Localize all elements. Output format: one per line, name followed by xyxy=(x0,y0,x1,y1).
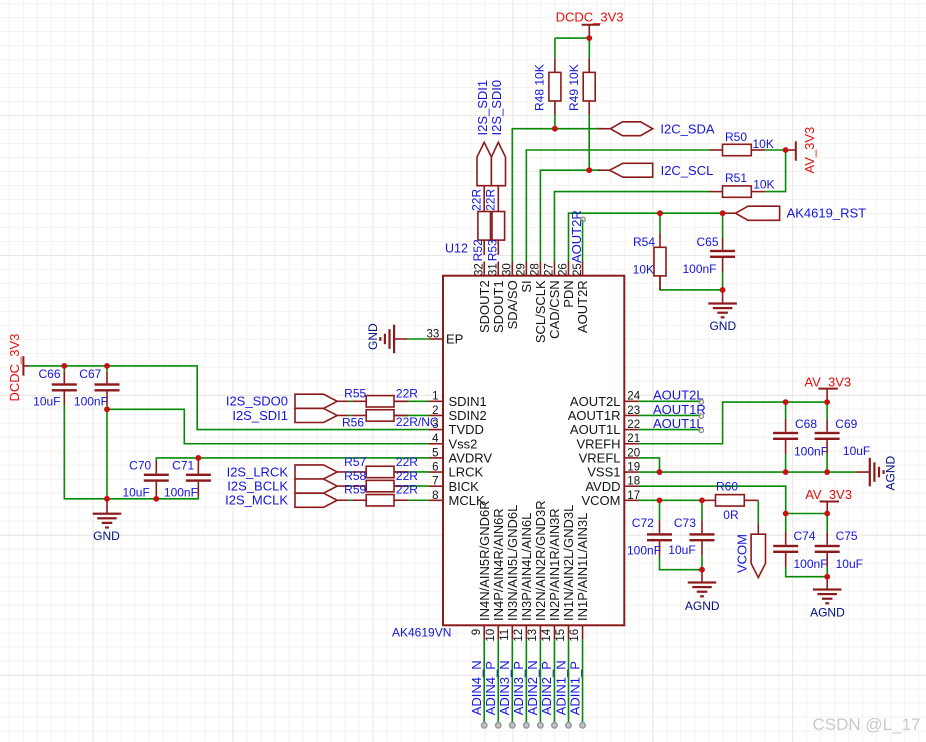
U12 pin 8 (MCLK) xyxy=(429,499,443,501)
wire C69 bottom stub xyxy=(826,454,828,472)
svg-text:22R: 22R xyxy=(396,386,418,400)
svg-text:22R: 22R xyxy=(396,482,418,496)
U12 pin 13 (IN2N/AIN2R/GND3R) xyxy=(539,625,541,639)
svg-text:GND: GND xyxy=(93,529,120,543)
svg-text:R58: R58 xyxy=(344,469,366,483)
svg-text:22R: 22R xyxy=(484,189,498,211)
wire C65 top to RST line xyxy=(722,213,724,238)
U12 pin 22 (AOUT1L) xyxy=(624,429,638,431)
U12 pin 32 (SDOUT2) xyxy=(483,262,485,276)
ground AGND (below C72/C73) xyxy=(701,570,703,583)
svg-text:5: 5 xyxy=(432,447,438,459)
svg-text:ADIN4_P: ADIN4_P xyxy=(483,661,498,715)
svg-text:27: 27 xyxy=(544,263,556,276)
svg-text:LRCK: LRCK xyxy=(449,465,484,480)
svg-text:SDIN1: SDIN1 xyxy=(449,394,487,409)
svg-text:22R: 22R xyxy=(469,189,483,211)
U12 pin 23 (AOUT1R) xyxy=(624,414,638,416)
svg-text:14: 14 xyxy=(541,628,553,641)
svg-text:21: 21 xyxy=(627,433,640,445)
svg-text:IN1P/AIN1L/AIN3L: IN1P/AIN1L/AIN3L xyxy=(575,513,590,621)
wire C65 bottom xyxy=(722,272,724,290)
svg-text:CSDN @L_17: CSDN @L_17 xyxy=(813,715,921,734)
U12 pin 31 (SDOUT1) xyxy=(497,262,499,276)
svg-text:33: 33 xyxy=(427,328,440,340)
wire R49 bottom to I2C_SCL line xyxy=(588,115,590,170)
ground GND (below R54/C65) xyxy=(722,290,724,304)
svg-text:I2S_SDO0: I2S_SDO0 xyxy=(226,394,288,409)
svg-text:AOUT2L: AOUT2L xyxy=(570,394,621,409)
U12 pin 1 (SDIN1) xyxy=(429,400,443,402)
svg-text:GND: GND xyxy=(709,319,736,333)
svg-text:15: 15 xyxy=(555,629,567,642)
svg-text:22: 22 xyxy=(627,419,640,431)
wire VREFH pin21 up to AV_3V3 rail xyxy=(638,402,827,444)
capacitor C69 10uF xyxy=(826,419,828,432)
junction GND rail/C70 xyxy=(153,496,159,502)
svg-text:R48 10K: R48 10K xyxy=(533,64,547,111)
wire C74/C75 bottom rail to AGND xyxy=(786,567,828,577)
svg-text:ADIN1_P: ADIN1_P xyxy=(567,661,582,715)
ground GND (below C66-C71 rail) xyxy=(106,499,108,514)
wire C67 bottom to Vss2 pin4 xyxy=(107,405,429,443)
svg-text:10uF: 10uF xyxy=(33,394,60,408)
wire AOUT1R pin23 xyxy=(638,414,700,416)
svg-text:AOUT1R: AOUT1R xyxy=(568,408,621,423)
wires bottom pins 9-16 to test points xyxy=(483,639,485,722)
svg-text:AGND: AGND xyxy=(810,606,845,620)
junction VREFL/VSS1 xyxy=(657,469,663,475)
U12 pin 14 (IN2P/AIN1R/AIN3R) xyxy=(553,625,555,639)
net tag I2S_SDO0 (to R55) xyxy=(295,394,337,408)
capacitor C67 100nF xyxy=(106,372,108,384)
no-connect marker AOUT1R end xyxy=(699,414,704,419)
test point markers bottom ADIN wires xyxy=(481,723,487,729)
svg-text:AOUT2L: AOUT2L xyxy=(653,388,704,403)
wire AOUT2L pin24 xyxy=(638,400,700,402)
svg-text:C69: C69 xyxy=(835,417,857,431)
wire SI net (pin29 up and right to R50) xyxy=(526,150,709,262)
wire EP pin33 to GND xyxy=(407,338,429,340)
junction C65 bottom/GND xyxy=(720,287,726,293)
svg-text:R51: R51 xyxy=(725,171,747,185)
svg-text:24: 24 xyxy=(627,391,640,403)
svg-text:6: 6 xyxy=(432,461,438,473)
capacitor C68 100nF xyxy=(785,419,787,432)
junction R49/I2C_SCL xyxy=(586,167,592,173)
resistor R59 22R xyxy=(337,499,349,501)
svg-text:I2C_SCL: I2C_SCL xyxy=(661,163,714,178)
junction C72/VCOM line xyxy=(657,497,663,503)
wire C70 bottom stub xyxy=(155,496,157,499)
U12 pin 3 (TVDD) xyxy=(429,429,443,431)
resistor R57 22R xyxy=(337,471,349,473)
wire DCDC_3V3 top rail to R48/R49 xyxy=(555,37,589,39)
svg-text:PDN: PDN xyxy=(561,280,576,307)
svg-text:26: 26 xyxy=(558,263,570,276)
svg-text:AK4619VN: AK4619VN xyxy=(392,626,451,640)
junction C68 bottom/VSS1 rail xyxy=(783,469,789,475)
svg-text:C71: C71 xyxy=(172,458,194,472)
wire PDN / AK4619_RST net (pin26 up and right to tag) xyxy=(569,213,725,262)
wire pin2 SDIN2 row R56 to IC xyxy=(349,414,353,416)
svg-text:AGND: AGND xyxy=(685,599,720,613)
svg-text:AV_3V3: AV_3V3 xyxy=(804,374,851,389)
U12 pin 20 (VREFL) xyxy=(624,457,638,459)
svg-text:28: 28 xyxy=(530,263,542,276)
svg-text:DCDC_3V3: DCDC_3V3 xyxy=(556,10,624,25)
capacitor C66 10uF xyxy=(63,372,65,384)
wire VCOM pin17 to R60 xyxy=(638,499,701,501)
capacitor C72 100nF xyxy=(659,520,661,533)
wire VSS1 pin19 to AGND xyxy=(638,471,856,473)
svg-text:TVDD: TVDD xyxy=(449,422,484,437)
svg-text:ADIN2_N: ADIN2_N xyxy=(525,660,540,715)
U12 pin 25 (AOUT2R) xyxy=(582,262,584,276)
svg-text:VCOM: VCOM xyxy=(734,534,749,573)
wire C68 bottom stub xyxy=(785,454,787,472)
svg-text:AVDD: AVDD xyxy=(585,479,620,494)
svg-text:32: 32 xyxy=(473,263,485,276)
svg-text:100nF: 100nF xyxy=(627,544,661,558)
wire R50 right to AV_3V3 junction xyxy=(765,149,788,151)
U12 pin 9 (IN4N/AIN5R/GND6R) xyxy=(483,625,485,639)
svg-text:10K: 10K xyxy=(633,263,654,277)
svg-text:10uF: 10uF xyxy=(843,444,870,458)
svg-text:22R: 22R xyxy=(396,469,418,483)
wire C68 top stub xyxy=(785,402,787,419)
junction C75 top/AV flag xyxy=(824,511,830,517)
resistor R56 22R/NC xyxy=(337,414,349,416)
svg-text:19: 19 xyxy=(627,461,640,473)
svg-text:ADIN2_P: ADIN2_P xyxy=(539,661,554,715)
svg-text:ADIN4_N: ADIN4_N xyxy=(469,660,484,715)
svg-text:ADIN3_P: ADIN3_P xyxy=(511,661,526,715)
no-connect marker pin25 AOUT2R xyxy=(581,217,586,222)
svg-text:VREFH: VREFH xyxy=(576,436,620,451)
svg-text:AOUT2R: AOUT2R xyxy=(575,280,590,333)
svg-text:100nF: 100nF xyxy=(794,444,828,458)
svg-text:CAD/CSN: CAD/CSN xyxy=(547,280,562,339)
wire CAD/CSN net (pin27 up and right to R51) xyxy=(554,192,709,262)
svg-text:C68: C68 xyxy=(795,417,817,431)
net tag I2S_BCLK (to R58) xyxy=(295,479,337,493)
junction C75 bottom/AGND xyxy=(824,574,830,580)
no-connect marker AOUT2L end xyxy=(699,400,704,405)
capacitor C74 100nF xyxy=(785,532,787,545)
resistor R55 22R xyxy=(337,400,349,402)
U12 pin 12 (IN3P/AIN4L/AIN6L) xyxy=(525,625,527,639)
svg-text:1: 1 xyxy=(432,391,438,403)
U12 pin 26 (PDN) xyxy=(568,262,570,276)
U12 pin 4 (Vss2) xyxy=(429,443,443,445)
power flag DCDC_3V3 (top) xyxy=(582,24,600,26)
svg-text:10uF: 10uF xyxy=(122,485,149,499)
junction C67/Vss2 branch xyxy=(104,406,110,412)
capacitor C65 100nF xyxy=(722,238,724,250)
svg-text:VCOM: VCOM xyxy=(582,493,621,508)
svg-text:4: 4 xyxy=(432,433,439,445)
svg-text:22R/NC: 22R/NC xyxy=(396,415,439,429)
svg-text:10: 10 xyxy=(485,629,497,642)
U12 pin 11 (IN3N/AIN5L/GND6L) xyxy=(511,625,513,639)
svg-text:R49 10K: R49 10K xyxy=(567,64,581,111)
svg-text:C70: C70 xyxy=(129,458,151,472)
svg-text:R50: R50 xyxy=(725,130,747,144)
wire R48 bottom to I2C_SDA line xyxy=(554,115,556,129)
svg-text:12: 12 xyxy=(513,629,525,642)
svg-text:I2S_LRCK: I2S_LRCK xyxy=(227,464,289,479)
U12 pin 10 (IN4P/AIN4R/AIN6R) xyxy=(497,625,499,639)
wire AOUT1L pin22 xyxy=(638,429,700,431)
wire AVDRV pin5 rail from C70/C71 tops xyxy=(156,458,428,461)
svg-text:SCL/SCLK: SCL/SCLK xyxy=(533,280,548,343)
wire pin8 MCLK row R59 to IC xyxy=(349,499,353,501)
svg-text:16: 16 xyxy=(569,629,581,642)
wire VREFL pin20 joins VSS1 xyxy=(638,458,659,472)
resistor R50 10K xyxy=(710,149,723,151)
U12 pin 18 (AVDD) xyxy=(624,485,638,487)
power flag AV_3V3 (right of R50) xyxy=(788,149,796,151)
svg-text:AOUT1L: AOUT1L xyxy=(653,416,704,431)
svg-text:AV_3V3: AV_3V3 xyxy=(805,487,852,502)
svg-text:11: 11 xyxy=(499,629,511,641)
svg-text:R52: R52 xyxy=(471,239,485,261)
svg-text:30: 30 xyxy=(502,263,514,276)
junction C73 bottom/AGND xyxy=(699,567,705,573)
wire I2C_SDA net (pin30 SDA/SO up and right to tag) xyxy=(512,129,601,262)
wire C73 top stub xyxy=(701,500,703,520)
net tag I2C_SDA (bidirectional hexagon) xyxy=(598,128,611,130)
svg-text:9: 9 xyxy=(471,629,483,635)
U12 pin 2 (SDIN2) xyxy=(429,414,443,416)
svg-text:C72: C72 xyxy=(632,516,654,530)
svg-text:I2S_SDI1: I2S_SDI1 xyxy=(475,80,490,136)
svg-text:ADIN3_N: ADIN3_N xyxy=(497,660,512,715)
svg-text:IN3P/AIN4L/AIN6L: IN3P/AIN4L/AIN6L xyxy=(519,513,534,621)
svg-text:C75: C75 xyxy=(836,529,858,543)
wire pin7 BICK row R58 to IC xyxy=(349,485,353,487)
U12 pin 30 (SDA/SO) xyxy=(511,262,513,276)
wire R54 bottom to GND rail to C65 bottom xyxy=(660,276,723,290)
resistor R51 10K xyxy=(710,191,723,193)
junction C65/RST line xyxy=(720,210,726,216)
svg-text:VREFL: VREFL xyxy=(579,451,621,466)
svg-text:100nF: 100nF xyxy=(794,557,828,571)
svg-text:SI: SI xyxy=(519,280,534,292)
junction C67 top xyxy=(104,363,110,369)
resistor R60 0R xyxy=(702,499,716,501)
svg-text:R53: R53 xyxy=(485,239,499,261)
U12 pin 21 (VREFH) xyxy=(624,443,638,445)
resistor R58 22R xyxy=(337,485,349,487)
junction C69 bottom/VSS1 rail xyxy=(824,469,830,475)
svg-text:AOUT1L: AOUT1L xyxy=(570,422,621,437)
svg-text:AK4619_RST: AK4619_RST xyxy=(787,206,867,221)
svg-text:23: 23 xyxy=(627,405,640,417)
U12 pin 29 (SI) xyxy=(525,262,527,276)
resistor R48 10K xyxy=(554,58,556,72)
svg-text:18: 18 xyxy=(627,476,640,488)
op-amp U12 AK4619VN codec IC body xyxy=(443,276,624,626)
svg-text:BICK: BICK xyxy=(449,479,480,494)
svg-text:AVDRV: AVDRV xyxy=(449,451,493,466)
svg-text:R59: R59 xyxy=(344,482,366,496)
wire R51 right up to AV_3V3 junction xyxy=(765,150,785,192)
wire C74 top stub xyxy=(785,514,787,533)
svg-text:I2S_MCLK: I2S_MCLK xyxy=(225,493,288,508)
wire R54 top to RST line xyxy=(659,213,661,233)
svg-text:0R: 0R xyxy=(723,508,739,522)
svg-text:10K: 10K xyxy=(753,178,774,192)
junction C69 top/AV flag xyxy=(824,399,830,405)
svg-text:SDIN2: SDIN2 xyxy=(449,408,487,423)
svg-text:DCDC_3V3: DCDC_3V3 xyxy=(7,334,22,402)
svg-text:SDOUT2: SDOUT2 xyxy=(477,280,492,333)
U12 pin 24 (AOUT2L) xyxy=(624,400,638,402)
ground GND (at EP pin) xyxy=(393,325,395,354)
U12 pin 28 (SCL/SCLK) xyxy=(539,262,541,276)
wire AOUT2R stub (pin25 up, unconnected) xyxy=(582,220,584,263)
capacitor C71 100nF xyxy=(197,461,199,474)
junction GND rail/C67 xyxy=(104,496,110,502)
svg-text:R56: R56 xyxy=(342,415,364,429)
svg-text:13: 13 xyxy=(527,629,539,642)
junction C73/VCOM line xyxy=(699,497,705,503)
net tag I2S_SDI0 (up, to R53) xyxy=(491,142,505,185)
net tag AK4619_RST (input wedge) xyxy=(725,212,736,214)
wire C72/C73 bottom rail to AGND xyxy=(660,555,703,569)
wire pin1 SDIN1 row R55 to IC xyxy=(349,400,353,402)
svg-text:SDA/SO: SDA/SO xyxy=(505,280,520,329)
svg-text:AGND: AGND xyxy=(883,455,897,490)
svg-text:10uF: 10uF xyxy=(668,543,695,557)
wire C69 top stub xyxy=(826,402,828,419)
svg-text:IN4P/AIN4R/AIN6R: IN4P/AIN4R/AIN6R xyxy=(491,508,506,621)
wire C75 top stub xyxy=(826,514,828,533)
svg-text:ADIN1_N: ADIN1_N xyxy=(553,660,568,715)
wire C72 top stub xyxy=(659,500,661,520)
svg-text:AV_3V3: AV_3V3 xyxy=(802,127,817,174)
svg-text:10K: 10K xyxy=(753,137,774,151)
svg-text:IN2N/AIN2R/GND3R: IN2N/AIN2R/GND3R xyxy=(533,500,548,621)
svg-text:U12: U12 xyxy=(445,242,468,256)
svg-text:IN4N/AIN5R/GND6R: IN4N/AIN5R/GND6R xyxy=(477,500,492,621)
svg-text:SDOUT1: SDOUT1 xyxy=(491,280,506,333)
svg-text:R54: R54 xyxy=(633,235,655,249)
capacitor C75 10uF xyxy=(826,532,828,545)
junction R54/RST line xyxy=(657,210,663,216)
U12 pin 27 (CAD/CSN) xyxy=(553,262,555,276)
wire C71 top stub xyxy=(197,458,199,461)
svg-text:100nF: 100nF xyxy=(164,485,198,499)
U12 pin 16 (IN1P/AIN1L/AIN3L) xyxy=(582,625,584,639)
junction C66 top xyxy=(61,363,67,369)
svg-text:R57: R57 xyxy=(344,455,366,469)
wire C67 top stub xyxy=(106,366,108,372)
svg-text:IN3N/AIN5L/GND6L: IN3N/AIN5L/GND6L xyxy=(505,505,520,621)
svg-text:8: 8 xyxy=(432,490,438,502)
wire C66 top stub xyxy=(63,366,65,372)
U12 pin 19 (VSS1) xyxy=(624,471,638,473)
net tag I2C_SCL (input wedge) xyxy=(598,169,610,171)
svg-text:EP: EP xyxy=(446,332,463,347)
U12 pin 7 (BICK) xyxy=(429,485,443,487)
wire DCDC_3V3 left rail to TVDD pin3 xyxy=(29,366,429,430)
svg-text:VSS1: VSS1 xyxy=(587,465,620,480)
svg-text:I2S_SDI0: I2S_SDI0 xyxy=(489,80,504,136)
junction AVDD/C74 xyxy=(783,511,789,517)
junction R50/AV_3V3 xyxy=(783,147,789,153)
U12 pin 15 (IN1N/AIN2L/GND3L) xyxy=(568,625,570,639)
net tag I2S_LRCK (to R57) xyxy=(295,465,337,479)
svg-text:10uF: 10uF xyxy=(836,557,863,571)
svg-text:100nF: 100nF xyxy=(74,394,108,408)
wire pin6 LRCK row R57 to IC xyxy=(349,471,353,473)
capacitor C73 10uF xyxy=(701,520,703,533)
U12 pin 6 (LRCK) xyxy=(429,471,443,473)
svg-text:I2C_SDA: I2C_SDA xyxy=(660,122,715,137)
net tag I2S_SDI1 (up, to R52) xyxy=(477,142,491,185)
svg-text:IN1N/AIN2L/GND3L: IN1N/AIN2L/GND3L xyxy=(561,505,576,621)
svg-text:GND: GND xyxy=(366,323,380,350)
svg-text:R60: R60 xyxy=(716,480,738,494)
svg-text:22R: 22R xyxy=(396,455,418,469)
svg-text:29: 29 xyxy=(516,263,528,276)
wire R60 right to VCOM tag xyxy=(757,500,759,524)
svg-text:100nF: 100nF xyxy=(682,262,716,276)
svg-text:17: 17 xyxy=(627,490,640,502)
svg-text:C65: C65 xyxy=(696,235,718,249)
svg-text:31: 31 xyxy=(487,263,499,276)
svg-text:IN2P/AIN1R/AIN3R: IN2P/AIN1R/AIN3R xyxy=(547,508,562,621)
svg-text:R55: R55 xyxy=(344,387,366,401)
svg-text:AOUT1R: AOUT1R xyxy=(653,402,706,417)
svg-text:C67: C67 xyxy=(79,367,101,381)
net tag I2S_SDI1 (to R56) xyxy=(295,408,337,422)
wire C67 bottom leg to GND rail xyxy=(106,409,108,499)
junction C68 top/AV rail xyxy=(783,399,789,405)
resistor R49 10K xyxy=(588,58,590,72)
junction DCDC_3V3 top xyxy=(586,35,592,41)
no-connect marker AOUT1L end xyxy=(699,428,704,433)
capacitor C70 10uF xyxy=(155,461,157,474)
svg-text:C74: C74 xyxy=(794,529,816,543)
wire GND bottom rail C66-C71 xyxy=(64,405,198,498)
wire I2C_SCL net (pin28 up and right to tag) xyxy=(540,170,601,262)
resistor R53 22R xyxy=(497,186,499,212)
svg-text:C66: C66 xyxy=(38,367,60,381)
junction R48/I2C_SDA xyxy=(552,126,558,132)
ground AGND (right of VSS1 rail) xyxy=(856,471,870,473)
svg-text:20: 20 xyxy=(627,447,640,459)
net tag VCOM (down) xyxy=(757,524,759,534)
svg-text:I2S_BCLK: I2S_BCLK xyxy=(227,479,288,494)
resistor R54 10K xyxy=(659,233,661,247)
junction C71 top/AVDRV xyxy=(195,455,201,461)
U12 pin 17 (VCOM) xyxy=(624,499,638,501)
ground AGND (below C74/C75) xyxy=(826,577,828,590)
svg-text:I2S_SDI1: I2S_SDI1 xyxy=(232,408,288,423)
net tag I2S_MCLK (to R59) xyxy=(295,493,337,507)
svg-text:C73: C73 xyxy=(674,516,696,530)
svg-text:25: 25 xyxy=(572,263,584,276)
U12 pin 5 (AVDRV) xyxy=(429,457,443,459)
wire AVDD pin18 to AV_3V3 rail xyxy=(638,486,827,513)
power flag DCDC_3V3 (left) xyxy=(22,356,24,375)
resistor R52 22R xyxy=(483,186,485,212)
svg-text:7: 7 xyxy=(432,476,438,488)
